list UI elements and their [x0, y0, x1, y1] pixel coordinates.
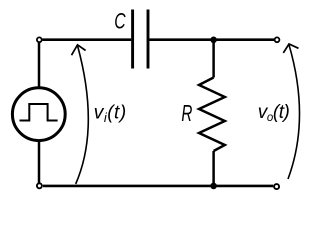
svg-text:vi(t): vi(t) [94, 102, 127, 126]
svg-text:C: C [114, 9, 125, 34]
svg-text:vo(t): vo(t) [258, 102, 290, 124]
svg-text:R: R [181, 100, 192, 126]
